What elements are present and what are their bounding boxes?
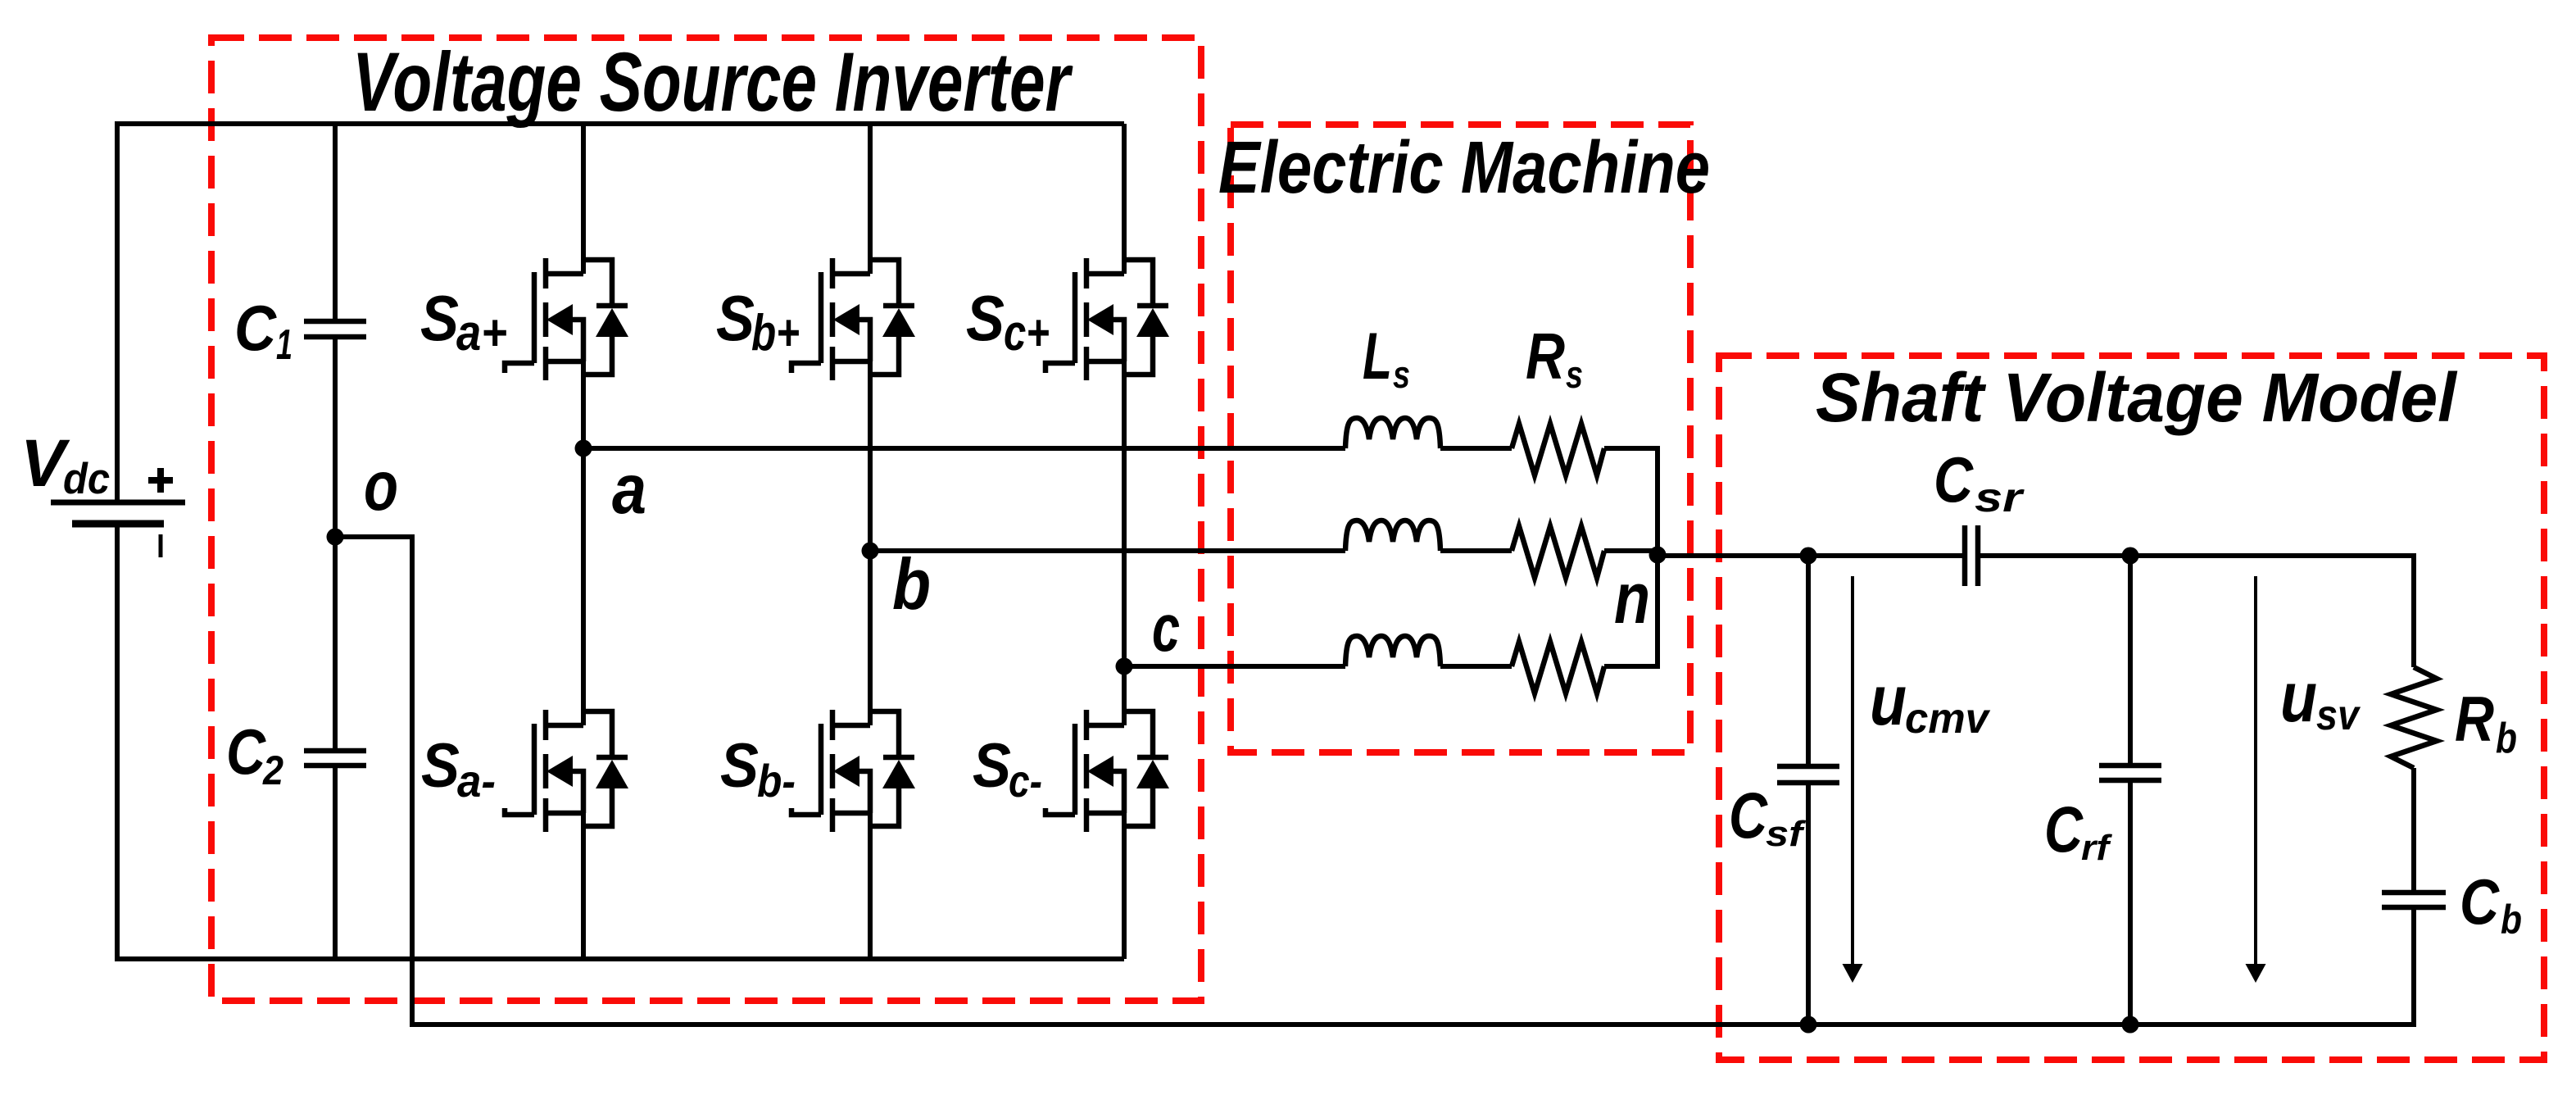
svg-text:S: S [720, 731, 759, 801]
resistor Rs phase a [1512, 424, 1604, 475]
svg-text:sf: sf [1766, 814, 1807, 854]
resistor Rs phase c [1512, 642, 1604, 693]
capacitor Csr (series, vertical plates) [1965, 525, 1978, 586]
wire phase b to stator inductor [870, 548, 1345, 553]
capacitor Csf [1777, 766, 1839, 783]
wire node n to Csr [1658, 553, 1965, 558]
svg-text:cmv: cmv [1905, 695, 1991, 743]
svg-text:C: C [226, 716, 266, 788]
wire Rb to Cb [2411, 768, 2416, 893]
svg-text:S: S [973, 731, 1011, 801]
dashed box: Voltage Source Inverter region [211, 38, 1201, 1001]
svg-text:s: s [1393, 352, 1410, 396]
battery Vdc negative plate [72, 520, 164, 528]
wire C2 to bottom rail [333, 766, 338, 959]
inductor Ls phase a [1345, 418, 1440, 448]
svg-text:c+: c+ [1004, 305, 1050, 361]
svg-text:s: s [1566, 352, 1583, 396]
capacitor C1 [304, 321, 366, 337]
node Csf top junction [1800, 547, 1817, 565]
wire inductor to resistor phase a [1440, 446, 1512, 451]
svg-text:L: L [1363, 320, 1392, 393]
svg-text:C: C [2044, 793, 2084, 866]
svg-text:S: S [716, 282, 755, 354]
wire Sa- source to bottom rail [581, 813, 586, 959]
wire right branch to Rb [2411, 553, 2416, 667]
wire bottom rail [117, 956, 1124, 961]
svg-text:rf: rf [2081, 828, 2113, 868]
svg-text:b: b [892, 543, 931, 625]
wire Sa+ source to node a [581, 361, 586, 448]
wire phase a to stator inductor [583, 446, 1345, 451]
wire resistor to star point phase c [1604, 664, 1658, 669]
wire top rail to C1 [333, 124, 338, 321]
node c junction [1116, 658, 1133, 675]
svg-text:C: C [234, 292, 277, 364]
transistor Sc+ (upper switch) [1045, 258, 1169, 380]
wire Sc- source to bottom rail [1122, 813, 1127, 959]
resistor Rb [2391, 667, 2437, 768]
transistor Sa- (lower switch) [505, 710, 628, 832]
node Crf bottom junction [2122, 1016, 2139, 1034]
svg-text:2: 2 [262, 747, 283, 793]
capacitor Cb [2382, 893, 2446, 907]
wire top rail to Sa+ drain [581, 124, 586, 274]
svg-text:C: C [1934, 443, 1974, 516]
svg-text:u: u [1870, 661, 1907, 740]
wire Csf branch upper [1806, 556, 1811, 766]
wire left from Vdc+ to top rail [115, 121, 120, 502]
svg-text:S: S [420, 282, 459, 354]
wire left from Vdc- to bottom rail [115, 524, 120, 961]
svg-text:S: S [966, 282, 1005, 354]
wire resistor to star point phase a [1604, 446, 1658, 451]
svg-text:dc: dc [63, 455, 110, 503]
wire Csf branch lower [1806, 783, 1811, 1025]
wire resistor to star point phase b [1604, 548, 1658, 553]
wire C1 to node o [333, 337, 338, 537]
battery minus tick [159, 534, 163, 557]
transistor Sc- (lower switch) [1045, 710, 1169, 832]
wire top rail [117, 121, 1124, 126]
svg-text:Shaft Voltage Model: Shaft Voltage Model [1816, 359, 2458, 436]
wire node o to C2 [333, 537, 338, 751]
dashed box: Electric Machine region [1231, 125, 1690, 752]
node Csf bottom junction [1800, 1016, 1817, 1034]
svg-text:Voltage Source Inverter: Voltage Source Inverter [352, 35, 1073, 129]
svg-text:C: C [2460, 866, 2500, 938]
arrow usv shaft voltage [2254, 576, 2257, 966]
svg-text:R: R [2455, 683, 2494, 755]
svg-text:n: n [1614, 557, 1650, 638]
node b junction [862, 543, 879, 560]
svg-text:1: 1 [276, 321, 293, 369]
svg-text:b-: b- [757, 755, 796, 806]
wire Csr to right branch [1978, 553, 2414, 558]
svg-text:S: S [421, 731, 460, 801]
wire top rail to Sc+ drain [1122, 124, 1127, 274]
wire o long bottom run to shaft voltage model [410, 1022, 2414, 1027]
wire node b to Sb- drain [868, 551, 873, 725]
wire phase c to stator inductor [1124, 664, 1345, 669]
transistor Sb+ (upper switch) [791, 258, 915, 380]
node Crf top junction [2122, 547, 2139, 565]
wire o vertical down [410, 534, 415, 1025]
wire Crf branch lower [2128, 780, 2133, 1025]
svg-text:a+: a+ [456, 305, 507, 361]
capacitor Crf [2099, 766, 2161, 780]
wire Cb to bottom wire [2411, 907, 2416, 1027]
wire node a to Sa- drain [581, 448, 586, 725]
battery Vdc positive plate [51, 500, 185, 506]
svg-text:R: R [1526, 320, 1565, 393]
wire node o horizontal [335, 534, 412, 539]
svg-text:a: a [612, 451, 646, 529]
wire inductor to resistor phase b [1440, 548, 1512, 553]
wire node c to Sc- drain [1122, 666, 1127, 725]
transistor Sa+ (upper switch) [505, 258, 628, 380]
svg-text:sr: sr [1975, 475, 2025, 520]
node a junction [575, 440, 592, 457]
inductor Ls phase b [1345, 520, 1440, 551]
svg-text:a-: a- [457, 755, 496, 806]
svg-text:C: C [1729, 779, 1768, 852]
wire Sb- source to bottom rail [868, 813, 873, 959]
svg-text:Electric Machine: Electric Machine [1218, 127, 1710, 209]
svg-text:b: b [2501, 897, 2522, 943]
wire inductor to resistor phase c [1440, 664, 1512, 669]
svg-text:u: u [2280, 658, 2317, 737]
wire Sb+ source to node b [868, 361, 873, 551]
battery plus sign [148, 468, 173, 493]
node o junction [327, 529, 344, 546]
wire Sc+ source to node c [1122, 361, 1127, 666]
svg-text:sv: sv [2316, 692, 2361, 739]
inductor Ls phase c [1345, 636, 1440, 666]
svg-text:b: b [2496, 715, 2517, 762]
svg-text:b+: b+ [751, 305, 800, 361]
svg-text:o: o [364, 448, 398, 525]
arrow ucmv common-mode voltage [1851, 576, 1854, 966]
dashed box: Shaft Voltage Model region [1719, 356, 2544, 1060]
wire top rail to Sb+ drain [868, 124, 873, 274]
wire Crf branch upper [2128, 556, 2133, 766]
node n junction [1649, 547, 1667, 564]
transistor Sb- (lower switch) [791, 710, 915, 832]
wire star connector vertical [1655, 446, 1660, 669]
capacitor C2 [304, 751, 366, 766]
resistor Rs phase b [1512, 526, 1604, 578]
svg-text:c-: c- [1009, 755, 1042, 806]
svg-text:c: c [1152, 591, 1180, 666]
